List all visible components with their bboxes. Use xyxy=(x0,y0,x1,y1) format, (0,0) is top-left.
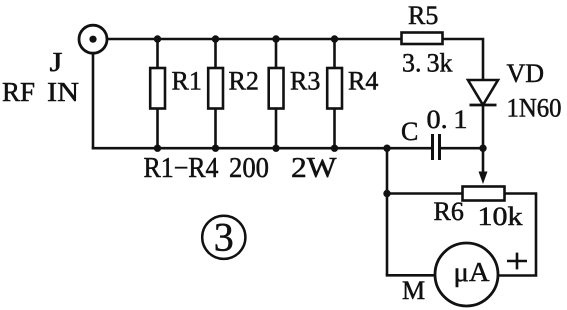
node left branch xyxy=(383,145,390,152)
node bottom R1 xyxy=(154,145,161,152)
svg-text:R5: R5 xyxy=(408,1,438,30)
node bottom R2 xyxy=(212,145,219,152)
node top R4 xyxy=(331,35,338,42)
wire diode to bottom rail xyxy=(482,105,485,148)
plus polarity mark xyxy=(507,253,527,270)
svg-text:VD: VD xyxy=(507,59,545,88)
svg-text:J: J xyxy=(50,47,63,77)
svg-text:RF: RF xyxy=(2,77,35,107)
svg-text:R3: R3 xyxy=(290,67,320,96)
resistor R4 xyxy=(327,39,342,148)
diode VD xyxy=(468,80,498,105)
svg-text:R4: R4 xyxy=(348,67,378,96)
potentiometer R6 xyxy=(463,148,505,200)
svg-text:R1: R1 xyxy=(172,67,202,96)
svg-text:μA: μA xyxy=(454,257,491,287)
meter M (microammeter) xyxy=(435,243,498,306)
node bottom R3 xyxy=(272,145,279,152)
wire bottom rail left xyxy=(92,147,431,150)
wire bottom to meter left xyxy=(386,274,435,277)
node diode bottom xyxy=(479,145,486,152)
svg-text:3: 3 xyxy=(214,215,234,260)
wire top rail xyxy=(108,38,402,41)
svg-text:10k: 10k xyxy=(478,202,523,231)
wire node to R6 left terminal xyxy=(387,192,463,195)
wire R5 to corner and down to diode xyxy=(443,39,484,80)
svg-text:3. 3k: 3. 3k xyxy=(402,49,453,78)
resistor R2 xyxy=(208,39,223,148)
wire connector down to bottom rail xyxy=(92,54,95,149)
wire R6 right to meter right xyxy=(498,194,536,276)
node top R3 xyxy=(272,35,279,42)
connector J (RF input jack) xyxy=(79,25,107,53)
svg-text:IN: IN xyxy=(47,77,79,107)
svg-text:R6: R6 xyxy=(434,197,464,226)
wire capacitor to diode node xyxy=(441,147,483,150)
resistor R5 xyxy=(402,33,443,45)
resistor R1 xyxy=(150,39,165,148)
capacitor C xyxy=(433,134,440,160)
node top R1 xyxy=(154,35,161,42)
svg-text:M: M xyxy=(402,276,425,305)
resistor R3 xyxy=(269,39,284,148)
svg-text:C: C xyxy=(401,117,418,146)
node bottom R4 xyxy=(331,145,338,152)
svg-text:1N60: 1N60 xyxy=(507,94,562,123)
svg-text:0. 1: 0. 1 xyxy=(427,105,468,134)
node R6 left xyxy=(383,190,390,197)
wire left vertical branch xyxy=(386,148,389,275)
figure number 3 (circled) xyxy=(202,215,245,260)
node top R2 xyxy=(212,35,219,42)
svg-text:R1−R42002W: R1−R42002W xyxy=(144,153,338,184)
svg-text:R2: R2 xyxy=(229,67,259,96)
